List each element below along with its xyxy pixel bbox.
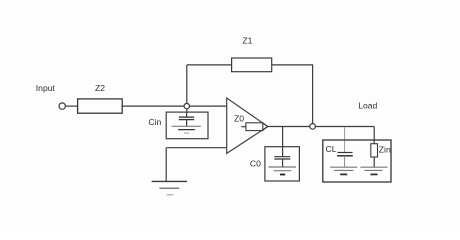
capacitor C0: [250, 147, 300, 181]
wire down to C0: [282, 127, 284, 147]
svg-text:Z0: Z0: [234, 114, 244, 124]
svg-text:C0: C0: [250, 159, 261, 169]
node A (input node): [184, 103, 189, 108]
svg-text:Zin: Zin: [379, 144, 391, 154]
svg-text:Input: Input: [36, 83, 56, 93]
wire down to ground: [165, 148, 167, 182]
svg-text:Cin: Cin: [148, 117, 161, 127]
wire node1 to Cin: [186, 106, 188, 112]
ground under CL: [330, 167, 357, 174]
wire down to CL (grey): [344, 127, 346, 152]
wire Z2 to op-amp input: [122, 105, 227, 107]
wire down to Zin: [373, 127, 375, 144]
resistor Z1: [232, 35, 272, 71]
capacitor CL: [326, 144, 353, 167]
ground (main): [152, 181, 187, 194]
op-amp U1: [227, 98, 268, 153]
svg-text:CL: CL: [326, 144, 337, 154]
wire feedback left: [187, 64, 232, 66]
wire input to Z2: [65, 105, 77, 107]
input terminal: [59, 103, 65, 109]
wire feedback right: [272, 65, 313, 124]
wire node1 up to feedback: [186, 65, 188, 106]
load box: [323, 140, 391, 182]
svg-text:Load: Load: [358, 101, 377, 111]
node B (output node): [310, 124, 316, 130]
svg-text:Z1: Z1: [242, 35, 252, 45]
resistor Z0 (inside op-amp): [234, 114, 268, 131]
capacitor Cin: [148, 112, 208, 139]
svg-text:Z2: Z2: [95, 83, 105, 93]
resistor Z2: [78, 83, 123, 113]
resistor Zin: [371, 144, 391, 168]
wire op-amp output: [268, 126, 374, 128]
wire op-amp inverting input: [166, 147, 227, 149]
ground under Zin: [360, 167, 387, 174]
